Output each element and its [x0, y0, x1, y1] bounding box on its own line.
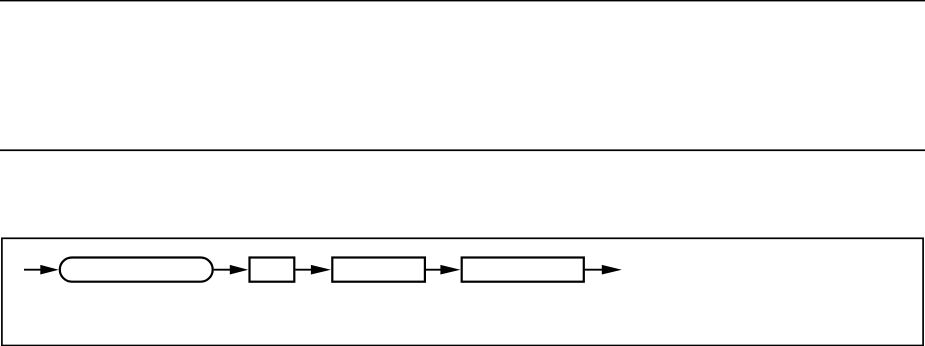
box 3: [462, 258, 584, 282]
exit arrowhead: [602, 265, 622, 275]
exit wire: [585, 269, 604, 271]
wire box 2 to box 3: [426, 269, 442, 271]
box 1: [250, 258, 295, 282]
box 2: [332, 258, 425, 282]
top page rule: [0, 0, 925, 1]
figure frame: [2, 238, 923, 345]
arrowhead to box 3: [440, 265, 460, 275]
wire stadium to box 1: [214, 269, 232, 271]
entry wire: [24, 269, 43, 271]
stadium terminal: [60, 258, 213, 282]
header rule: [0, 149, 925, 151]
arrowhead to box 2: [311, 265, 331, 275]
arrowhead to box 1: [230, 265, 248, 275]
wire box 1 to box 2: [295, 269, 313, 271]
entry arrowhead: [40, 265, 58, 275]
